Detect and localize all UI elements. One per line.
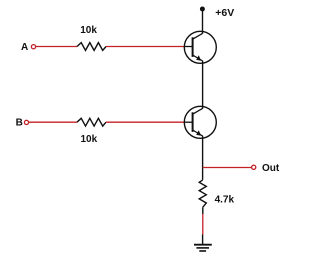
- resistor R1 10k: [77, 43, 106, 51]
- terminal Out: [252, 165, 256, 169]
- svg-text:A: A: [21, 42, 28, 53]
- power +6V dot: [200, 7, 205, 12]
- wire: [202, 136, 204, 180]
- resistor R3 4.7k: [199, 180, 206, 207]
- resistor R2 10k: [77, 118, 106, 126]
- terminal A: [31, 45, 35, 49]
- wire: [29, 121, 77, 123]
- transistor Q2: [184, 106, 216, 138]
- terminal B: [24, 120, 28, 124]
- ground: [194, 235, 212, 252]
- svg-text:B: B: [16, 118, 23, 129]
- svg-text:10k: 10k: [80, 25, 97, 36]
- wire: [202, 9, 204, 34]
- transistor Q1: [184, 31, 216, 63]
- wire: [202, 214, 204, 235]
- svg-text:+6V: +6V: [215, 7, 234, 19]
- wire: [106, 121, 185, 123]
- node Out wire: [203, 167, 252, 169]
- wire: [106, 46, 185, 48]
- wire: [202, 207, 204, 214]
- wire: [36, 46, 77, 48]
- svg-text:4.7k: 4.7k: [215, 195, 235, 206]
- svg-text:10k: 10k: [80, 134, 97, 145]
- wire: [202, 61, 204, 109]
- svg-text:Out: Out: [262, 163, 280, 174]
